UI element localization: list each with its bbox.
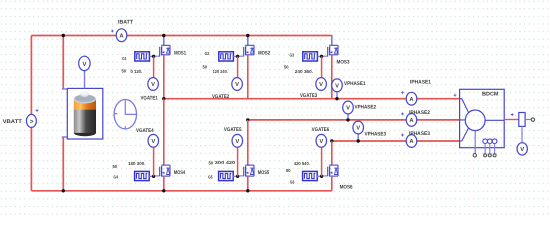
label IPHASE1 xyxy=(410,79,431,85)
ammeter IPHASE2 xyxy=(401,113,417,127)
svg-text:V: V xyxy=(151,82,155,88)
label IPHASE3 xyxy=(409,131,430,137)
svg-text:V: V xyxy=(335,83,339,89)
svg-text:IPHASE3: IPHASE3 xyxy=(409,131,430,137)
label MOS2 xyxy=(258,51,270,57)
BDCM rotor shaft to bottom terminal xyxy=(473,131,476,157)
voltmeter probe on battery xyxy=(79,56,90,88)
battery block (image) xyxy=(62,88,103,139)
label G4 xyxy=(114,175,119,180)
svg-text:G3: G3 xyxy=(290,53,295,58)
voltmeter VGATE2 xyxy=(232,78,243,91)
voltmeter VPHASE2 xyxy=(343,101,354,114)
wire gate probe leg VGATE6 xyxy=(321,147,323,176)
node gate junction G5 xyxy=(236,175,239,178)
gating block G4 xyxy=(135,171,154,180)
svg-text:V: V xyxy=(319,82,323,88)
wire gate probe leg VGATE3 xyxy=(321,56,323,77)
svg-text:120 240.: 120 240. xyxy=(213,69,228,74)
voltmeter VGATE1 xyxy=(148,78,159,91)
transistor MOS1 xyxy=(154,45,170,56)
label MOS5 xyxy=(258,170,270,176)
label 50 (G4) xyxy=(113,164,118,169)
svg-text:VGATE1: VGATE1 xyxy=(141,96,158,102)
ammeter IPHASE1 xyxy=(401,91,417,105)
label range (G5) xyxy=(215,160,236,165)
BDCM sensor coils xyxy=(483,139,497,157)
transistor MOS6 xyxy=(322,165,338,176)
node gate junction G1 xyxy=(152,55,155,58)
svg-text:IBATT: IBATT xyxy=(118,20,134,26)
transistor MOS5 xyxy=(238,165,254,176)
wire drain feed MOS2 xyxy=(246,34,249,46)
wire left rail lower xyxy=(30,127,32,191)
svg-text:0 120.: 0 120. xyxy=(131,69,143,74)
wire source lead MOS3 xyxy=(331,55,333,99)
label G2 xyxy=(205,51,210,56)
label G5 xyxy=(208,175,213,180)
voltmeter VGATE4 xyxy=(148,134,159,147)
svg-text:V: V xyxy=(346,106,350,112)
svg-text:VGATE6: VGATE6 xyxy=(312,127,330,133)
label VPHASE2 xyxy=(355,104,377,110)
node VPHASE1 tap xyxy=(335,97,338,100)
wire bottom DC rail xyxy=(31,190,331,192)
source VBATT xyxy=(26,109,38,127)
label VGATE2 xyxy=(212,94,229,100)
svg-text:MOS1: MOS1 xyxy=(174,51,186,57)
svg-text:VBATT: VBATT xyxy=(3,119,23,125)
voltmeter VPHASE3 xyxy=(353,121,364,134)
node phase A start xyxy=(162,97,165,100)
svg-text:MOS4: MOS4 xyxy=(174,170,186,176)
wire battery bottom feed xyxy=(62,137,65,193)
label MOS3 xyxy=(337,59,350,65)
wire gate probe leg VGATE1 xyxy=(153,56,155,77)
svg-text:MOS2: MOS2 xyxy=(258,51,270,57)
label G1 xyxy=(122,56,127,61)
label 50 (G5) xyxy=(209,161,214,166)
wire gate probe leg VGATE5 xyxy=(237,147,239,176)
label IPHASE2 xyxy=(409,110,430,116)
label VBATT xyxy=(3,119,23,125)
svg-text:50: 50 xyxy=(122,69,127,74)
svg-text:V: V xyxy=(235,82,239,88)
svg-text:180 300.: 180 300. xyxy=(128,161,146,166)
speed sensor block xyxy=(519,113,535,127)
wire top DC rail xyxy=(31,35,331,37)
wire drain feed MOS1 xyxy=(162,34,165,46)
svg-text:240 360.: 240 360. xyxy=(295,69,313,74)
svg-text:VPHASE3: VPHASE3 xyxy=(365,132,387,138)
wire drain feed MOS4 xyxy=(163,99,165,165)
svg-text:50: 50 xyxy=(286,168,291,173)
gating block G6 xyxy=(303,171,322,180)
node phase C start xyxy=(330,139,333,142)
svg-text:BDCM: BDCM xyxy=(482,92,499,98)
svg-text:300 420: 300 420 xyxy=(215,160,236,165)
svg-text:50: 50 xyxy=(203,65,208,70)
label range (G4) xyxy=(128,161,146,166)
svg-text:VGATE3: VGATE3 xyxy=(300,93,317,99)
speed sensor probe stub xyxy=(521,126,523,142)
wire gate probe leg VGATE2 xyxy=(237,56,239,77)
voltmeter VGATE6 xyxy=(316,134,327,147)
clock dial element xyxy=(114,100,136,129)
svg-text:G1: G1 xyxy=(122,56,127,61)
wire battery top feed xyxy=(62,34,65,89)
label VGATE1 xyxy=(141,96,158,102)
label range (G6) xyxy=(294,161,310,166)
transistor MOS3 xyxy=(322,45,338,56)
node phase B start xyxy=(246,118,249,121)
svg-text:IPHASE2: IPHASE2 xyxy=(409,110,430,116)
label VGATE6 xyxy=(312,127,330,133)
gating block G5 xyxy=(219,171,238,180)
node VPHASE2 tap xyxy=(346,118,349,121)
voltmeter VGATE5 xyxy=(232,134,243,147)
voltmeter speed xyxy=(517,143,527,155)
label VGATE5 xyxy=(224,127,242,133)
label VGATE4 xyxy=(136,128,154,134)
wire phase A line xyxy=(164,98,460,100)
wire gate probe leg VGATE4 xyxy=(153,147,155,176)
svg-text:V: V xyxy=(520,147,524,153)
svg-text:50: 50 xyxy=(113,164,118,169)
label range (G2) xyxy=(213,69,228,74)
gating block G3 xyxy=(303,52,322,61)
wire probe stub VPHASE1 xyxy=(336,92,338,99)
node gate junction G6 xyxy=(320,175,323,178)
svg-text:VPHASE1: VPHASE1 xyxy=(344,81,366,87)
svg-text:V: V xyxy=(151,139,155,145)
svg-text:V: V xyxy=(356,126,360,132)
svg-text:VGATE2: VGATE2 xyxy=(212,94,229,100)
label range (G3) xyxy=(295,69,313,74)
svg-text:>: > xyxy=(30,118,34,125)
node gate junction G3 xyxy=(320,55,323,58)
node gate junction G4 xyxy=(152,175,155,178)
label VGATE3 xyxy=(300,93,317,99)
label MOS4 xyxy=(174,170,186,176)
wire probe stub VPHASE2 xyxy=(347,114,349,120)
label G6 xyxy=(290,179,295,184)
svg-text:50: 50 xyxy=(284,65,289,70)
svg-text:VGATE5: VGATE5 xyxy=(224,127,242,133)
svg-text:G4: G4 xyxy=(114,175,119,180)
label MOS1 xyxy=(174,51,186,57)
label IBATT xyxy=(118,20,134,26)
svg-text:420 540.: 420 540. xyxy=(294,161,310,166)
svg-text:V: V xyxy=(319,139,323,145)
svg-text:MOS3: MOS3 xyxy=(337,59,350,65)
label 50 (G6) xyxy=(286,168,291,173)
wire shaft to speed sensor xyxy=(504,113,519,119)
svg-text:VGATE4: VGATE4 xyxy=(136,128,154,134)
wire drain feed MOS3 xyxy=(331,35,333,45)
wire source lead MOS1 xyxy=(163,55,165,99)
voltmeter VPHASE1 xyxy=(332,79,343,92)
label VPHASE1 xyxy=(344,81,366,87)
wire left rail upper (VBATT to top rail) xyxy=(30,36,32,115)
node gate junction G2 xyxy=(236,55,239,58)
label BDCM xyxy=(482,92,499,98)
label 50 (G2) xyxy=(203,65,208,70)
svg-text:50: 50 xyxy=(209,161,214,166)
svg-text:G2: G2 xyxy=(205,51,210,56)
wire drain feed MOS6 xyxy=(331,141,333,165)
wire drain feed MOS5 xyxy=(247,120,249,165)
svg-text:MOS5: MOS5 xyxy=(258,170,270,176)
ammeter IPHASE3 xyxy=(401,134,417,148)
voltmeter VGATE3 xyxy=(316,78,327,91)
svg-text:IPHASE1: IPHASE1 xyxy=(410,79,431,85)
wire source lead MOS5 xyxy=(246,176,249,192)
gating block G2 xyxy=(219,52,238,61)
gating block G1 xyxy=(135,52,154,61)
label VPHASE3 xyxy=(365,132,387,138)
svg-text:G5: G5 xyxy=(208,175,213,180)
node VPHASE3 tap xyxy=(357,139,360,142)
label MOS6 xyxy=(340,184,353,190)
svg-text:V: V xyxy=(235,139,239,145)
wire phase C line xyxy=(332,140,460,142)
svg-text:VPHASE2: VPHASE2 xyxy=(355,104,377,110)
wire phase B line xyxy=(248,119,460,121)
wire source lead MOS2 xyxy=(247,55,249,99)
label range (G1) xyxy=(131,69,143,74)
svg-text:G6: G6 xyxy=(290,179,295,184)
ammeter IBATT xyxy=(111,29,127,42)
wire probe stub VPHASE3 xyxy=(357,134,359,141)
label G3 xyxy=(290,53,295,58)
wire source lead MOS6 xyxy=(331,176,333,191)
wire source lead MOS4 xyxy=(162,176,165,192)
svg-text:MOS6: MOS6 xyxy=(340,184,353,190)
transistor MOS4 xyxy=(154,165,170,176)
transistor MOS2 xyxy=(238,45,254,56)
label 50 (G3) xyxy=(284,65,289,70)
machine block BDCM xyxy=(454,89,505,147)
label 50 (G1) xyxy=(122,69,127,74)
